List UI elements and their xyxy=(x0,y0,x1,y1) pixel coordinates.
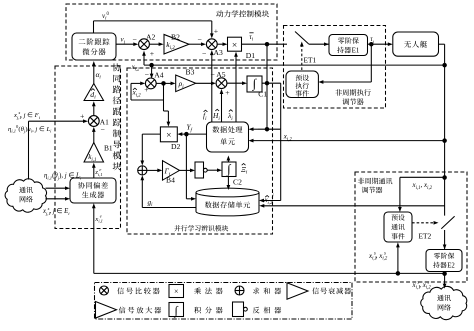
svg-text:A2: A2 xyxy=(146,33,155,42)
svg-text:ET2: ET2 xyxy=(419,232,432,241)
svg-text:−: − xyxy=(202,49,207,58)
svg-text:+: + xyxy=(150,49,155,58)
svg-text:E2: E2 xyxy=(447,263,455,270)
svg-text:×: × xyxy=(166,131,171,141)
svg-text:−: − xyxy=(101,125,106,134)
svg-text:−: − xyxy=(198,35,203,44)
svg-text:D1: D1 xyxy=(246,51,255,60)
svg-text:B2: B2 xyxy=(171,32,180,41)
svg-text:A3: A3 xyxy=(214,48,223,57)
svg-text:ET1: ET1 xyxy=(304,55,317,64)
svg-text:B1: B1 xyxy=(104,144,113,153)
svg-text:C2: C2 xyxy=(233,178,242,187)
svg-text:A4: A4 xyxy=(154,70,163,79)
svg-text:+: + xyxy=(144,85,149,94)
svg-text:E1: E1 xyxy=(352,47,360,55)
svg-text:∫: ∫ xyxy=(174,304,179,318)
svg-text:D2: D2 xyxy=(171,142,180,151)
svg-text:B4: B4 xyxy=(166,175,175,184)
svg-text:−: − xyxy=(211,70,216,79)
svg-text:×: × xyxy=(232,41,237,51)
svg-text:∫: ∫ xyxy=(252,77,257,92)
svg-text:∫: ∫ xyxy=(226,162,231,177)
svg-text:×: × xyxy=(174,287,179,296)
svg-text:C1: C1 xyxy=(258,89,267,98)
svg-text:A5: A5 xyxy=(216,70,225,79)
svg-text:−: − xyxy=(145,70,150,79)
svg-text:+: + xyxy=(214,27,219,36)
svg-text:−: − xyxy=(133,36,138,45)
svg-text:+: + xyxy=(80,112,85,121)
svg-text:+: + xyxy=(225,88,230,97)
svg-text:B3: B3 xyxy=(186,67,195,76)
